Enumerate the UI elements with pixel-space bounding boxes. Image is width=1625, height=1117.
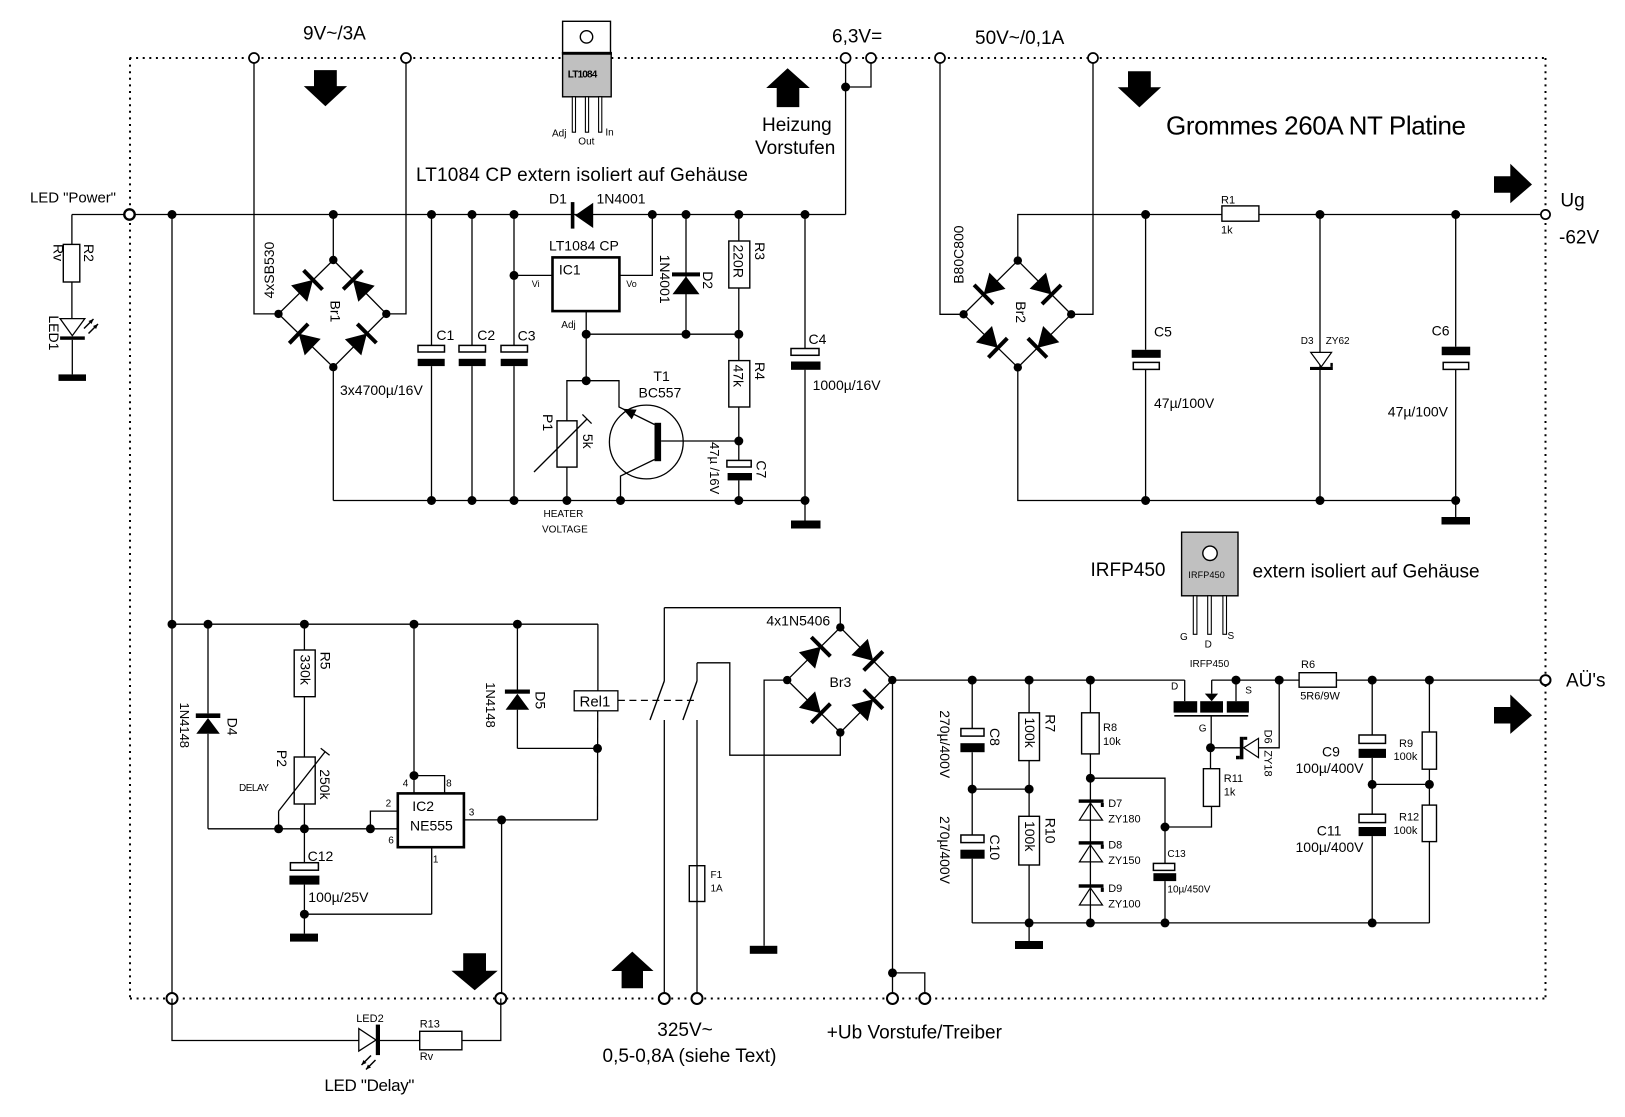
svg-text:G: G (1180, 632, 1188, 643)
svg-text:Heizung: Heizung (762, 115, 832, 136)
resistor R12 100k (1394, 805, 1437, 923)
resistor R3 220R (729, 210, 768, 339)
svg-text:6: 6 (388, 836, 394, 847)
svg-text:LT1084 CP extern isoliert auf: LT1084 CP extern isoliert auf Gehäuse (416, 165, 748, 186)
capacitor C11 100µ/400V (1296, 784, 1387, 927)
wire: 50V AC right lead to Br2 (1071, 63, 1093, 314)
svg-text:D2: D2 (700, 271, 716, 289)
svg-text:50V~/0,1A: 50V~/0,1A (975, 28, 1065, 49)
svg-text:325V~: 325V~ (657, 1020, 712, 1041)
terminal: 9V input right (401, 53, 411, 63)
svg-text:Grommes 260A NT Platine: Grommes 260A NT Platine (1166, 111, 1466, 141)
label LT1084 CP extern isoliert auf Gehäuse (416, 165, 748, 186)
potentiometer P2 250k (DELAY) (239, 748, 333, 833)
svg-text:8: 8 (446, 779, 452, 790)
terminal: LED delay feed (bottom border) (495, 993, 506, 1004)
wire: +Ub drop to terminals (888, 680, 897, 998)
svg-text:D: D (1205, 639, 1212, 650)
resistor R13 Rv (420, 1019, 462, 1064)
svg-text:6,3V=: 6,3V= (832, 27, 882, 48)
svg-text:D3: D3 (1301, 336, 1314, 347)
zener D8 ZY150 (1079, 840, 1141, 868)
terminal: Ug output (1541, 210, 1550, 219)
svg-text:3x4700µ/16V: 3x4700µ/16V (340, 382, 423, 398)
svg-text:D1: D1 (549, 191, 567, 207)
svg-text:NE555: NE555 (410, 817, 453, 833)
capacitor C13 10µ/450V (1153, 823, 1210, 928)
zener D9 ZY100 (1079, 883, 1141, 911)
svg-text:D8: D8 (1108, 840, 1122, 852)
wire: Br3 minus to ground (764, 680, 787, 946)
svg-text:1000µ/16V: 1000µ/16V (813, 377, 882, 393)
wire: contact 1 to Br3 AC top (664, 608, 840, 628)
capacitor C2 (459, 210, 496, 505)
LED LED1 (46, 315, 98, 350)
svg-text:AÜ's: AÜ's (1566, 671, 1606, 692)
wire: long left vertical to delay section (171, 215, 173, 625)
svg-text:LED2: LED2 (356, 1013, 384, 1025)
svg-text:R10: R10 (1043, 818, 1059, 844)
wire: IC1 Adj pin down (582, 311, 591, 381)
svg-text:4: 4 (403, 779, 409, 790)
svg-text:LT1084 CP: LT1084 CP (549, 238, 619, 254)
wire: C9/C11 midpoint link (1372, 783, 1429, 785)
terminal: 9V input left (249, 53, 259, 63)
resistor R2 (Rv) (51, 244, 98, 282)
ground under LED1 (59, 374, 87, 381)
resistor R8 10k (1082, 676, 1122, 928)
svg-text:100µ/400V: 100µ/400V (1296, 760, 1365, 776)
wire: long left vertical continues to bottom border (171, 624, 173, 998)
svg-text:1N4148: 1N4148 (483, 682, 498, 728)
bridge Br3 (4x1N5406) (783, 623, 897, 737)
svg-text:R2: R2 (81, 244, 97, 262)
svg-text:250k: 250k (317, 769, 333, 800)
svg-text:C3: C3 (518, 328, 536, 344)
label IRFP450 (package heading) (1091, 560, 1166, 581)
svg-text:1k: 1k (1224, 787, 1236, 799)
wire: Br1 plus output to rail (329, 210, 338, 260)
svg-text:9V~/3A: 9V~/3A (303, 24, 366, 45)
label 50V~/0,1A (975, 28, 1065, 49)
svg-text:R4: R4 (752, 362, 768, 380)
svg-text:LED "Delay": LED "Delay" (324, 1076, 414, 1095)
svg-text:0,5-0,8A (siehe Text): 0,5-0,8A (siehe Text) (603, 1046, 777, 1067)
svg-text:270µ/400V: 270µ/400V (937, 710, 953, 779)
wire: R13 up to border terminal (462, 999, 501, 1041)
svg-text:1A: 1A (711, 884, 724, 895)
svg-text:Adj: Adj (561, 320, 575, 331)
svg-text:Adj: Adj (552, 129, 566, 140)
capacitor C10 270µ/400V (937, 789, 1003, 923)
wire: LED2 to R13 (380, 1040, 420, 1042)
label LED "Power" (30, 190, 116, 207)
arrow (down) at LED delay feed (451, 953, 497, 990)
svg-text:100µ/25V: 100µ/25V (308, 889, 369, 905)
arrow output Ug (right) (1494, 164, 1532, 203)
label 325V~ (657, 1020, 712, 1041)
terminal: AÜ output (1541, 675, 1551, 685)
svg-text:5R6/9W: 5R6/9W (1300, 691, 1340, 703)
svg-text:IC1: IC1 (559, 262, 581, 278)
svg-text:C8: C8 (987, 728, 1003, 746)
wire: R2 to LED1 (71, 282, 73, 319)
diode D4 1N4148 (177, 620, 240, 829)
svg-text:R6: R6 (1301, 659, 1315, 671)
relay contact 1 (650, 608, 664, 999)
capacitor C7 47µ/16V (707, 441, 770, 505)
wire: output section bottom rail (972, 922, 1429, 924)
svg-text:C5: C5 (1154, 323, 1172, 339)
svg-text:ZY180: ZY180 (1108, 814, 1140, 826)
arrow input 325V (up) (611, 952, 653, 989)
svg-text:4x1N5406: 4x1N5406 (766, 613, 830, 629)
IC IC2 NE555 (398, 793, 464, 847)
svg-text:47k: 47k (731, 365, 747, 389)
resistor R11 1k (1203, 748, 1243, 807)
terminal: 50V input left (935, 53, 945, 63)
wire: IC2 pin 3 output line (464, 808, 598, 825)
capacitor C12 100µ/25V (289, 829, 369, 934)
svg-text:ZY62: ZY62 (1326, 336, 1350, 347)
svg-text:LT1084: LT1084 (568, 70, 598, 81)
wire: 6.3V second terminal stub (846, 58, 871, 87)
svg-text:100k: 100k (1394, 751, 1418, 763)
wire: IC2 pin 8 link to pin 4 (414, 776, 452, 794)
capacitor C3 (501, 210, 536, 505)
svg-text:C10: C10 (987, 835, 1003, 861)
resistor R6 5R6/9W (series in output) (1299, 659, 1340, 703)
capacitor C8 270µ/400V (937, 676, 1003, 794)
svg-text:IRFP450: IRFP450 (1188, 570, 1225, 580)
svg-text:In: In (605, 128, 613, 139)
ground under R10 (1015, 941, 1043, 949)
wire: Adj node horizontal line (586, 333, 739, 335)
svg-text:P1: P1 (540, 414, 556, 431)
terminal: +Ub right (919, 993, 930, 1004)
svg-text:D: D (1171, 682, 1178, 693)
svg-text:LED "Power": LED "Power" (30, 190, 116, 207)
terminal: +Ub left (887, 993, 898, 1004)
diode D1 1N4001 (series in rail) (549, 191, 646, 229)
svg-text:47µ /16V: 47µ /16V (707, 442, 722, 495)
arrow output AÜ (right) (1494, 695, 1532, 734)
wire: C8/C10 midpoint link (972, 788, 1029, 790)
wire: IC2 pin 4 up to rail (403, 620, 419, 794)
label Grommes 260A NT Platine (1166, 111, 1466, 141)
resistor R9 100k (1394, 676, 1437, 806)
label 9V~/3A (303, 24, 366, 45)
svg-text:100k: 100k (1022, 821, 1038, 852)
svg-text:C9: C9 (1322, 744, 1340, 760)
svg-text:ZY18: ZY18 (1262, 750, 1274, 776)
svg-text:C4: C4 (809, 331, 827, 347)
svg-text:220R: 220R (731, 245, 747, 278)
svg-text:R13: R13 (420, 1019, 440, 1031)
wire: LED2 loop left side (172, 999, 359, 1041)
wire: main positive rail (heater section) (72, 214, 846, 216)
zener D7 ZY180 (1079, 798, 1141, 826)
svg-text:Vi: Vi (532, 279, 540, 289)
wire: 9V AC left lead to Br1 (254, 63, 279, 314)
wire: IC1 Vi pin to C3 node (510, 271, 553, 280)
LED LED2 (356, 1013, 384, 1070)
wire: LED-power branch down from rail (71, 215, 73, 245)
svg-text:R8: R8 (1103, 722, 1117, 734)
potentiometer P1 5k (534, 381, 596, 505)
svg-text:D6: D6 (1262, 730, 1274, 744)
svg-text:-62V: -62V (1559, 228, 1599, 249)
wire: source side rail to AÜ output (1212, 679, 1546, 681)
label 4x1N5406 (766, 613, 830, 629)
svg-text:D7: D7 (1108, 798, 1122, 810)
wire: 9V AC right lead to Br1 (386, 63, 406, 314)
svg-text:5k: 5k (580, 434, 596, 450)
label AÜ's (1566, 671, 1606, 692)
relay contact 2 (683, 663, 697, 999)
wire: Br3 plus rail to +Ub and output section (892, 679, 1184, 681)
svg-text:R12: R12 (1399, 812, 1419, 824)
wire: 6.3V output riser (841, 58, 850, 215)
svg-text:ZY150: ZY150 (1108, 855, 1140, 867)
svg-text:47µ/100V: 47µ/100V (1154, 395, 1215, 411)
arrow input 50V (down) (1118, 71, 1161, 107)
label 6,3V= (832, 27, 882, 48)
svg-text:IRFP450: IRFP450 (1091, 560, 1166, 581)
svg-text:100k: 100k (1022, 717, 1038, 748)
wire: IC2 pin3 down to border terminal (501, 820, 503, 993)
svg-text:1N4001: 1N4001 (657, 255, 673, 304)
svg-text:Out: Out (578, 137, 594, 148)
ground under Br3 minus (750, 946, 778, 954)
resistor R4 47k (729, 334, 768, 445)
op-amp-style box IC1 LT1084 CP regulator (532, 238, 637, 331)
svg-text:C7: C7 (754, 460, 770, 478)
svg-text:47µ/100V: 47µ/100V (1388, 404, 1449, 420)
resistor R10 100k (1019, 816, 1059, 941)
svg-text:3: 3 (469, 808, 475, 819)
svg-text:10k: 10k (1103, 736, 1121, 748)
svg-text:BC557: BC557 (639, 385, 682, 401)
wire: D5 anode to relay coil node (517, 744, 602, 753)
label Ug (1560, 191, 1584, 212)
wire: R8 bottom to C13 top (1090, 778, 1165, 863)
svg-text:VOLTAGE: VOLTAGE (542, 525, 588, 536)
svg-text:extern isoliert auf Gehäuse: extern isoliert auf Gehäuse (1253, 562, 1480, 583)
svg-text:D9: D9 (1108, 883, 1122, 895)
wire: 50V AC left lead to Br2 (940, 63, 964, 314)
arrow output Heizung (up) (766, 68, 810, 107)
transistor T1 BC557 (582, 368, 683, 505)
svg-text:+Ub Vorstufe/Treiber: +Ub Vorstufe/Treiber (827, 1023, 1003, 1044)
svg-text:Ug: Ug (1560, 191, 1584, 212)
svg-text:C13: C13 (1167, 849, 1186, 860)
svg-text:R5: R5 (317, 652, 333, 670)
zener D6 ZY18 (gate protection) (1211, 676, 1284, 777)
label +Ub Vorstufe/Treiber (827, 1023, 1003, 1044)
svg-text:DELAY: DELAY (239, 783, 269, 794)
label LED "Delay" (324, 1076, 414, 1095)
wire: IC1 Vo pin up to rail (619, 210, 656, 275)
svg-text:LED1: LED1 (46, 315, 62, 350)
label HEATER VOLTAGE (542, 509, 588, 536)
svg-text:P2: P2 (274, 750, 290, 767)
svg-text:R11: R11 (1224, 773, 1243, 785)
wire: bottom return rail (heater section) (333, 500, 805, 502)
label extern isoliert auf Gehäuse (1253, 562, 1480, 583)
resistor R5 330k (294, 620, 333, 757)
svg-text:Br2: Br2 (1013, 301, 1029, 323)
svg-text:R7: R7 (1043, 714, 1059, 732)
svg-text:IC2: IC2 (412, 798, 434, 814)
zener D3 ZY62 (1301, 210, 1350, 505)
relay coil Rel1 (574, 624, 618, 820)
node: junction rail / long left wire (168, 210, 177, 219)
label B80C800 (951, 225, 967, 284)
svg-text:B80C800: B80C800 (951, 225, 967, 284)
svg-text:F1: F1 (711, 870, 723, 881)
svg-text:D5: D5 (532, 691, 548, 709)
resistor R1 1k (series in Ug rail) (1221, 195, 1259, 237)
wire: +Ub second terminal stub (893, 973, 925, 999)
bridge Br1 (4xSB530) (261, 241, 390, 371)
svg-text:Rel1: Rel1 (580, 694, 611, 711)
MOSFET Q1 IRFP450 symbol (1171, 659, 1252, 752)
ground under C6 (1442, 517, 1471, 525)
ground under C4 (791, 521, 821, 529)
arrow input 9V (down) (304, 70, 347, 106)
capacitor C4 1000µ/16V (791, 210, 881, 521)
label -62V (1559, 228, 1599, 249)
capacitor C6 47µ/100V (1388, 210, 1470, 517)
svg-text:S: S (1245, 686, 1252, 697)
svg-text:HEATER: HEATER (544, 509, 584, 520)
wire: R11 bottom link to C13 node (1165, 806, 1212, 827)
svg-text:D4: D4 (225, 718, 241, 736)
svg-text:1: 1 (433, 855, 439, 866)
wire: contact 2 S-bend to Br3 AC bottom (697, 663, 840, 755)
wire: Br1 minus output down to bottom rail (332, 367, 334, 500)
svg-text:1N4001: 1N4001 (597, 191, 646, 207)
svg-text:330k: 330k (298, 655, 314, 686)
wire: T1 base to R4/C7 node (661, 440, 739, 442)
svg-text:C2: C2 (477, 327, 495, 343)
label Heizung Vorstufen (755, 115, 835, 159)
wire: C12 minus to IC2 pin1 (304, 913, 431, 915)
wire: dashed relay actuation link (618, 699, 697, 701)
diode D5 1N4148 (relay flyback) (483, 620, 548, 749)
svg-text:1N4148: 1N4148 (177, 703, 192, 749)
resistor R7 100k (1019, 676, 1059, 817)
svg-text:1k: 1k (1221, 225, 1233, 237)
svg-text:4xSB530: 4xSB530 (261, 241, 277, 298)
svg-text:100µ/400V: 100µ/400V (1296, 839, 1365, 855)
svg-text:C12: C12 (308, 848, 334, 864)
bridge Br2 (B80C800) (959, 256, 1075, 371)
svg-text:C11: C11 (1317, 823, 1342, 839)
terminal: 325V input left (659, 993, 670, 1004)
svg-text:IRFP450: IRFP450 (1190, 659, 1230, 670)
terminal: 325V input right (692, 993, 703, 1004)
svg-text:R9: R9 (1399, 738, 1413, 750)
svg-text:C1: C1 (436, 327, 454, 343)
wire: delay section top rail (168, 620, 598, 629)
svg-text:Br1: Br1 (327, 301, 343, 323)
svg-text:100k: 100k (1394, 825, 1418, 837)
terminal: 6.3V right (866, 53, 876, 63)
label 0,5-0,8A (siehe Text) (603, 1046, 777, 1067)
svg-text:2: 2 (386, 799, 392, 810)
svg-text:ZY100: ZY100 (1108, 899, 1140, 911)
svg-text:R3: R3 (752, 242, 768, 260)
svg-text:Br3: Br3 (830, 674, 852, 690)
svg-text:10µ/450V: 10µ/450V (1167, 885, 1210, 896)
svg-text:C6: C6 (1432, 323, 1450, 339)
svg-text:G: G (1199, 724, 1207, 735)
LT1084 package drawing (TO-220) (552, 21, 614, 147)
wire: LED1 cathode to ground (71, 340, 73, 375)
label 3x4700µ/16V (340, 382, 423, 398)
wire: delay section mid line (trigger/threshold) (208, 828, 398, 830)
terminal: 6.3V left (841, 53, 851, 63)
svg-text:Vorstufen: Vorstufen (755, 138, 835, 159)
capacitor C9 100µ/400V (1296, 676, 1387, 789)
wire: IC2 pin 2 stub (366, 799, 398, 834)
svg-text:R1: R1 (1221, 195, 1235, 207)
wire: Br2 minus up to Ug rail (1018, 215, 1546, 261)
terminal: LED delay return (bottom border left) (167, 993, 178, 1004)
terminal: 50V input right (1088, 53, 1098, 63)
capacitor C5 47µ/100V (1132, 210, 1215, 505)
terminal: LED Power node on left border (124, 209, 134, 219)
svg-text:Rv: Rv (51, 244, 67, 261)
svg-text:S: S (1228, 631, 1235, 642)
fuse F1 1A (689, 866, 723, 902)
svg-text:Vo: Vo (626, 279, 637, 289)
wire: IC2 pin 1 to C12 minus (432, 847, 439, 914)
wire: IC2 pin 6 connection (388, 836, 394, 847)
svg-text:270µ/400V: 270µ/400V (937, 816, 953, 885)
diode D2 1N4001 (shunt) (657, 210, 716, 339)
IRFP450 package drawing (TO-247) (1180, 532, 1238, 650)
wire: Br2 plus down to return rail (1018, 367, 1456, 500)
capacitor C1 (418, 210, 455, 505)
svg-text:T1: T1 (653, 368, 670, 384)
ground under C12 (290, 934, 318, 942)
svg-text:Rv: Rv (420, 1051, 434, 1063)
